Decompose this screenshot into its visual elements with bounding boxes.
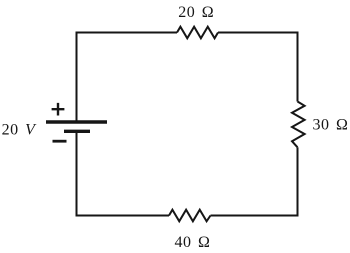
svg-text:40 Ω: 40 Ω — [175, 234, 211, 251]
battery V1: positive (long) plate — [46, 120, 107, 123]
resistor R2 30 ohm (right) — [292, 102, 305, 148]
battery V1: negative (short) plate — [64, 130, 90, 133]
wire: top rail left segment — [76, 32, 178, 34]
wire: top rail right segment — [218, 32, 299, 34]
wire: right rail lower (R2 to bottom-right corner) — [297, 147, 299, 216]
polarity mark: minus sign at battery negative terminal — [53, 140, 67, 143]
wire: bottom rail right segment — [211, 215, 299, 217]
wire: left rail upper (battery + terminal to top-left corner) — [76, 32, 78, 121]
svg-text:20 V: 20 V — [2, 122, 38, 139]
wire: bottom rail left segment — [76, 215, 170, 217]
wire: left rail lower (bottom-left corner to battery - terminal) — [76, 131, 78, 216]
svg-text:30 Ω: 30 Ω — [313, 116, 349, 133]
svg-text:20 Ω: 20 Ω — [178, 4, 214, 21]
resistor R3 40 ohm (bottom) — [169, 210, 211, 222]
resistor R1 20 ohm (top) — [177, 27, 218, 39]
polarity mark: plus sign at battery positive terminal — [52, 103, 65, 116]
wire: right rail upper (top-right corner to R2) — [297, 32, 299, 102]
